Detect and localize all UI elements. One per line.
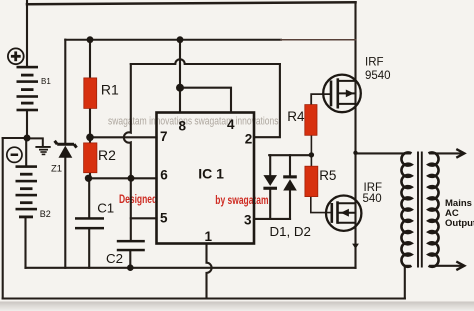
svg-text:IRF: IRF (365, 56, 384, 68)
svg-text:540: 540 (363, 193, 382, 205)
wire diode top bus (269, 154, 311, 156)
transistor Q2 IRF540 (326, 196, 361, 231)
wire C1 top lead (88, 178, 90, 217)
transformer T1 primary winding (401, 152, 411, 266)
ground (35, 146, 50, 155)
resistor R4 (305, 105, 317, 136)
svg-text:2: 2 (245, 132, 253, 147)
wire zener Z1 bottom lead (64, 157, 66, 268)
wire primary bottom (405, 266, 410, 299)
battery B1 (17, 66, 39, 111)
wire R5 bottom lead and gate of IRF540 (311, 197, 332, 213)
wire supply rail y=39.7 (65, 39, 281, 41)
wire D1 leads (269, 155, 271, 219)
capacitor C1 (75, 217, 104, 229)
wire top frame (27, 2, 356, 4)
node pin8/pin4 branch (176, 84, 184, 92)
resistor R5 (305, 166, 318, 196)
svg-text:B1: B1 (41, 77, 51, 86)
diode D2 (283, 175, 297, 190)
wire pin4 branch (180, 88, 231, 113)
wire secondary top (431, 152, 464, 154)
svg-text:by swagatam: by swagatam (215, 193, 268, 207)
wire pin2 riser and stub (254, 64, 280, 137)
svg-text:6: 6 (160, 168, 168, 183)
wire centre tap to left (3, 137, 27, 139)
IC 1 box (157, 113, 255, 244)
minus terminal symbol (7, 147, 22, 162)
svg-text:C1: C1 (97, 200, 114, 215)
svg-text:D1, D2: D1, D2 (270, 224, 311, 239)
wire pin6 (89, 177, 157, 179)
node pin6 wire and C2 column junction (128, 175, 135, 182)
svg-text:R4: R4 (287, 109, 305, 124)
node C2 on bottom rail (127, 264, 134, 271)
wire R1 bottom lead (89, 108, 91, 137)
arrow output bottom (456, 262, 464, 271)
op-amp/mosfet Q1 IRF9540 (323, 75, 361, 113)
node pin8 column on supply rail (177, 36, 184, 43)
svg-text:7: 7 (160, 129, 168, 144)
wire pin5 (131, 217, 157, 219)
wire right frame (drain-source column) (354, 2, 356, 268)
svg-text:R1: R1 (101, 81, 119, 97)
resistor R2 (84, 143, 97, 173)
wire secondary bottom (431, 265, 464, 267)
node R4/R5/diode junction (309, 152, 314, 157)
wire pin8 column (179, 40, 181, 113)
wire D2 leads (289, 155, 291, 219)
svg-text:IC 1: IC 1 (198, 166, 224, 182)
svg-text:4: 4 (227, 117, 235, 132)
svg-text:3: 3 (244, 213, 252, 228)
svg-text:9540: 9540 (365, 70, 391, 82)
wire C1 bottom lead (88, 229, 90, 267)
wire B2 bottom lead (24, 217, 26, 268)
zener Z1 (55, 141, 77, 158)
wire R1 top lead (89, 40, 91, 78)
svg-text:B2: B2 (40, 209, 51, 219)
svg-text:Designed: Designed (119, 192, 157, 206)
svg-text:Output: Output (445, 218, 474, 229)
svg-text:5: 5 (160, 211, 168, 226)
node R2/C1/pin6 junction (85, 175, 92, 182)
svg-text:1: 1 (205, 229, 213, 244)
node R1/R2/pin7 junction (86, 134, 94, 142)
svg-text:C2: C2 (106, 251, 123, 266)
wire pin3 (254, 218, 290, 220)
wire left frame bottom (2, 138, 4, 299)
svg-text:R2: R2 (98, 147, 116, 163)
wire B2 top lead (25, 138, 27, 167)
wire transformer tap from MOSFET column (356, 152, 410, 154)
resistor R1 (84, 78, 97, 109)
node transformer tap (353, 151, 357, 155)
wire C2 column top segment with hop over pin7 wire (124, 64, 131, 240)
wire R2 leads (89, 137, 91, 178)
transformer T1 secondary winding (429, 152, 439, 266)
wire y=64 line with hop over pin8 column (131, 59, 280, 64)
wire R4 bottom lead / node / R5 top lead (310, 135, 312, 166)
arrow source IRF540 (352, 244, 359, 249)
wire ground stub (27, 138, 43, 146)
arrow output top (456, 149, 464, 158)
wire left frame top (B1 + lead) (26, 0, 28, 66)
battery B2 (16, 165, 38, 218)
node battery centre tap (24, 135, 31, 142)
wire bottom rail (26, 267, 356, 269)
svg-text:Z1: Z1 (51, 164, 62, 175)
wire pin7 to R1/R2 node (90, 136, 157, 138)
capacitor C2 (117, 240, 145, 251)
diode D1 (263, 175, 277, 190)
svg-text:8: 8 (179, 118, 187, 133)
plus terminal symbol (8, 48, 24, 64)
svg-text:R5: R5 (319, 168, 336, 183)
wire C2 bottom stub (129, 251, 131, 267)
wire zener Z1 top lead (64, 40, 66, 144)
wire R4 top lead and gate of IRF9540 (311, 94, 331, 105)
wire pin1 with hop over bottom rail (207, 244, 212, 299)
wire bottom return line (3, 297, 405, 299)
wire B1 bottom lead (26, 110, 28, 138)
node R1 top on supply rail (87, 36, 94, 43)
transformer core (418, 152, 422, 268)
